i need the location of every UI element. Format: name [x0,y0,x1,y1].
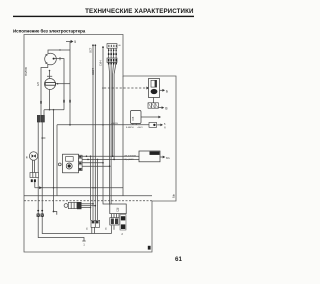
svg-text:+БЕЛ: +БЕЛ [137,127,143,129]
svg-text:СДІ: СДІ [116,207,120,212]
ignition switch feed (dashed wire) [104,87,147,89]
svg-text:С8: С8 [131,116,135,120]
svg-text:ОСТ: ОСТ [90,47,93,53]
connector K4 (dark block) [110,218,119,225]
svg-text:61: 61 [175,256,182,263]
wire bus x70 [69,42,71,125]
CDI pins down [112,214,120,218]
terminal tick 1 [82,240,85,242]
svg-text:Исполнение без электростартера: Исполнение без электростартера [13,27,86,33]
frame inner right border [122,76,124,196]
connector K2 (4-pin socket) [107,58,117,62]
svg-text:Б: Б [166,89,168,93]
wire hook at engine [53,211,55,213]
wire X2 to main run [34,182,36,188]
main lower wire run [35,187,123,189]
lower wire run 2 [24,195,152,197]
connector K3 (3-cell) [148,103,158,108]
wire U1 down [153,98,155,103]
header rule [13,16,194,17]
magneto wire 1 [82,155,139,157]
wire from X1 left down [38,122,84,241]
svg-text:8-ЧЕРН: 8-ЧЕРН [126,127,134,129]
wire from X1 right down [42,122,111,233]
CDI unit A1 [110,204,126,214]
wire L2 right [56,83,71,85]
connector X2 [30,173,39,178]
wire K6 down to run [92,227,95,233]
frame chassis outline [24,35,176,253]
connector X1 (two cells) [37,115,40,122]
svg-text:5: 5 [74,40,76,44]
wire run to connector K6 right [97,159,99,220]
magneto connector strip [79,155,83,170]
arrow to node D [157,124,160,126]
wire R1 right with arrow [141,116,159,118]
svg-text:СИН: СИН [100,60,103,66]
magneto M1 [63,154,79,173]
wire quad buses down [109,62,117,204]
spark plug P1 [64,204,68,208]
terminal 5 arrow [66,41,71,43]
plug wire 3 [82,207,91,209]
wire L1 top [48,50,70,53]
wire bus A [92,45,94,220]
arrow from R2 [160,156,163,158]
magneto wire 3 [82,162,103,164]
svg-text:Ж(+)-БЕЛ: Ж(+)-БЕЛ [124,159,134,161]
regulator R2 [139,151,160,162]
plug wire 2 [82,205,96,207]
wire L1 right [55,59,64,110]
wire bus C [103,47,110,204]
wire L2 top stub [47,71,52,79]
pilot terminal [58,163,61,166]
wire junction row y109.7 [44,109,64,111]
svg-text:+ЧЕРН: +ЧЕРН [111,123,118,125]
svg-text:В: В [165,107,167,111]
magneto wire 2 [82,158,139,160]
junction on long wire [53,187,55,189]
long wire to R1 bottom [57,124,149,126]
connector K5 strip [120,215,126,231]
wire L1 bottom to bus [41,64,48,115]
wire K4 down [111,225,113,233]
wire horn down [33,160,35,172]
svg-text:А/В: А/В [37,82,40,86]
wire bus B [94,45,96,220]
svg-text:Б/р: Б/р [172,194,176,198]
frame corner mark v [148,246,151,250]
svg-text:ГОЛУБ: ГОЛУБ [24,67,28,76]
svg-text:ЗООТ: ЗООТ [92,68,95,75]
connector K1 (4-pin plug) [107,44,117,49]
plug wire 1 [82,203,94,205]
control unit R1 [131,111,142,124]
svg-text:ТЕХНИЧЕСКИЕ ХАРАКТЕРИСТИКИ: ТЕХНИЧЕСКИЕ ХАРАКТЕРИСТИКИ [85,8,194,15]
engine boundary (dash) [24,200,152,202]
engine box left border [56,125,58,196]
arrow to node B [160,89,163,91]
lamp L2 [45,79,56,90]
svg-text:АН-КОРИЧН: АН-КОРИЧН [124,155,136,158]
magneto wire 4 [82,165,110,167]
connector K6 (2 cells) [91,220,100,227]
wire L2 bottom run [49,90,51,110]
connector K1 pins [109,48,117,58]
lamp L1 [45,53,57,65]
horn H1 [29,152,37,160]
arrow to node V [158,107,161,109]
wire run to connector K6 [90,156,92,220]
diode D1 [149,123,157,128]
ground terminal G2 [41,214,44,217]
ignition switch U1 [149,79,160,98]
ground terminal G1 [37,214,40,217]
